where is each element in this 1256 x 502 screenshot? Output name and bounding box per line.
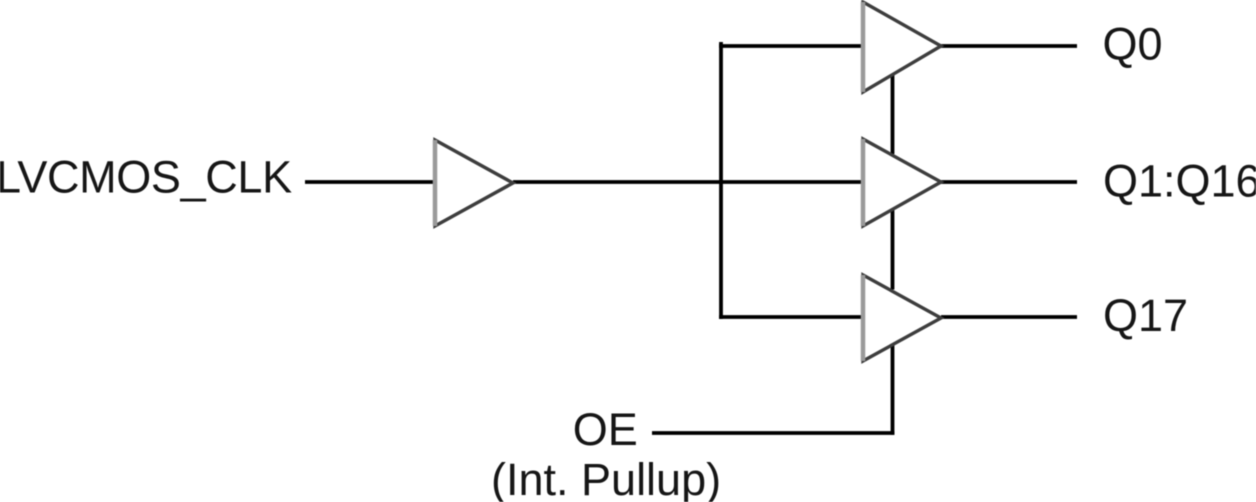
svg-text:Q0: Q0 — [1103, 19, 1163, 70]
wire: input buffer output to fanout bus — [513, 180, 863, 184]
wire: Q1:Q16 output — [941, 180, 1077, 184]
wire: OE enable vertical, middle buffer to bottom buffer — [891, 210, 895, 290]
svg-text:Q17: Q17 — [1103, 290, 1188, 341]
wire: OE horizontal net — [652, 431, 894, 435]
svg-text:Q1:Q16: Q1:Q16 — [1103, 156, 1256, 207]
wire: bus to top buffer Q0 — [719, 44, 863, 48]
wire: OE enable vertical, bottom buffer down to OE net — [891, 345, 895, 435]
svg-text:(Int. Pullup): (Int. Pullup) — [491, 454, 721, 502]
wire: LVCMOS_CLK to input buffer — [305, 180, 434, 184]
wire: Q0 output — [941, 44, 1077, 48]
buffer U4 bottom output buffer (Q17) — [863, 275, 941, 361]
wire: bus to bottom buffer Q17 — [719, 315, 863, 319]
buffer U1 input buffer triangle — [435, 140, 513, 226]
svg-text:LVCMOS_CLK: LVCMOS_CLK — [0, 152, 292, 203]
wire: Q17 output — [941, 315, 1077, 319]
buffer U2 top output buffer (Q0) — [863, 2, 941, 92]
svg-text:OE: OE — [573, 404, 638, 455]
buffer U3 middle output buffer (Q1:Q16) — [863, 139, 941, 226]
node: fanout bus vertical — [719, 42, 723, 319]
wire: OE enable vertical, top buffer to middle buffer — [891, 75, 895, 155]
